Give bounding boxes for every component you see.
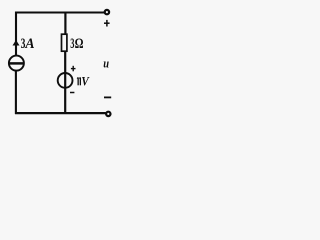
resistor R1 body: [62, 34, 67, 51]
voltage source V1 plus mark: [71, 66, 76, 72]
wire middle upper segment: [64, 12, 66, 35]
svg-text:Ω: Ω: [75, 36, 84, 52]
terminal top right: [105, 10, 109, 14]
current source I1 arrow: [13, 40, 20, 46]
wire middle lower segment through voltage source: [64, 52, 66, 115]
svg-text:u: u: [103, 56, 109, 71]
label 11V: [77, 77, 80, 85]
voltage source V1 circle: [58, 73, 73, 88]
wire bottom rail: [15, 112, 106, 114]
current source I1 circle: [9, 56, 24, 71]
wire top rail: [15, 11, 104, 13]
wire left upper segment: [15, 12, 17, 56]
current source I1 bar: [9, 62, 24, 65]
terminal bottom right: [106, 112, 110, 116]
voltage source V1 minus mark: [70, 92, 74, 94]
port minus mark: [104, 96, 111, 98]
wire left lower segment: [15, 71, 17, 114]
svg-text:A: A: [24, 36, 34, 52]
port plus mark: [104, 20, 110, 27]
svg-text:V: V: [81, 73, 90, 88]
